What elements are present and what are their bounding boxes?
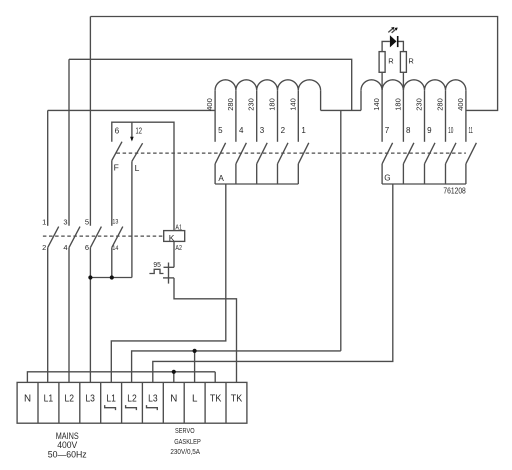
svg-text:9: 9	[427, 126, 432, 135]
svg-text:K: K	[169, 233, 175, 243]
svg-text:3: 3	[63, 217, 67, 226]
svg-text:180: 180	[395, 98, 402, 111]
svg-text:11: 11	[469, 126, 474, 135]
svg-text:2: 2	[281, 126, 286, 135]
svg-text:50—60Hz: 50—60Hz	[48, 450, 87, 461]
svg-text:1: 1	[42, 217, 46, 226]
svg-text:400: 400	[207, 98, 214, 111]
svg-text:2: 2	[42, 243, 46, 252]
svg-text:A2: A2	[175, 243, 182, 252]
svg-text:4: 4	[239, 126, 244, 135]
svg-text:L2: L2	[127, 394, 137, 405]
svg-text:G: G	[384, 173, 390, 182]
svg-text:TK: TK	[210, 394, 222, 405]
svg-text:280: 280	[438, 98, 445, 111]
svg-text:3: 3	[260, 126, 265, 135]
svg-text:8: 8	[406, 126, 411, 135]
svg-text:F: F	[114, 163, 119, 173]
svg-text:140: 140	[374, 98, 381, 111]
svg-text:5: 5	[218, 126, 223, 135]
svg-text:L3: L3	[148, 394, 158, 405]
svg-text:6: 6	[115, 127, 120, 136]
svg-text:12: 12	[136, 127, 143, 136]
svg-text:6: 6	[85, 243, 89, 252]
svg-text:L: L	[192, 394, 198, 405]
svg-text:7: 7	[385, 126, 390, 135]
svg-text:R: R	[388, 57, 394, 66]
svg-text:761208: 761208	[443, 186, 466, 196]
svg-text:N: N	[24, 394, 31, 405]
svg-text:L3: L3	[85, 394, 95, 405]
svg-text:10: 10	[448, 126, 454, 135]
svg-text:L: L	[135, 163, 140, 173]
svg-text:140: 140	[290, 98, 297, 111]
svg-text:L1: L1	[44, 394, 54, 405]
svg-text:4: 4	[63, 243, 67, 252]
svg-text:5: 5	[85, 217, 89, 226]
svg-text:1: 1	[301, 126, 306, 135]
svg-text:180: 180	[270, 98, 277, 111]
svg-text:SERVO: SERVO	[175, 426, 195, 435]
svg-text:L2: L2	[65, 394, 75, 405]
svg-text:95: 95	[153, 260, 161, 269]
svg-text:A: A	[218, 174, 224, 183]
svg-text:N: N	[170, 394, 177, 405]
svg-text:400: 400	[458, 98, 465, 111]
svg-text:GASKLEP: GASKLEP	[174, 437, 201, 446]
svg-text:13: 13	[112, 219, 118, 226]
svg-text:TK: TK	[231, 394, 243, 405]
svg-text:230V/0,5A: 230V/0,5A	[170, 447, 200, 456]
svg-text:R: R	[408, 57, 414, 66]
svg-text:230: 230	[417, 98, 424, 111]
svg-text:14: 14	[112, 245, 118, 252]
svg-text:230: 230	[249, 98, 256, 111]
svg-text:L1: L1	[106, 394, 116, 405]
svg-text:A1: A1	[175, 222, 182, 231]
svg-text:280: 280	[228, 98, 235, 111]
